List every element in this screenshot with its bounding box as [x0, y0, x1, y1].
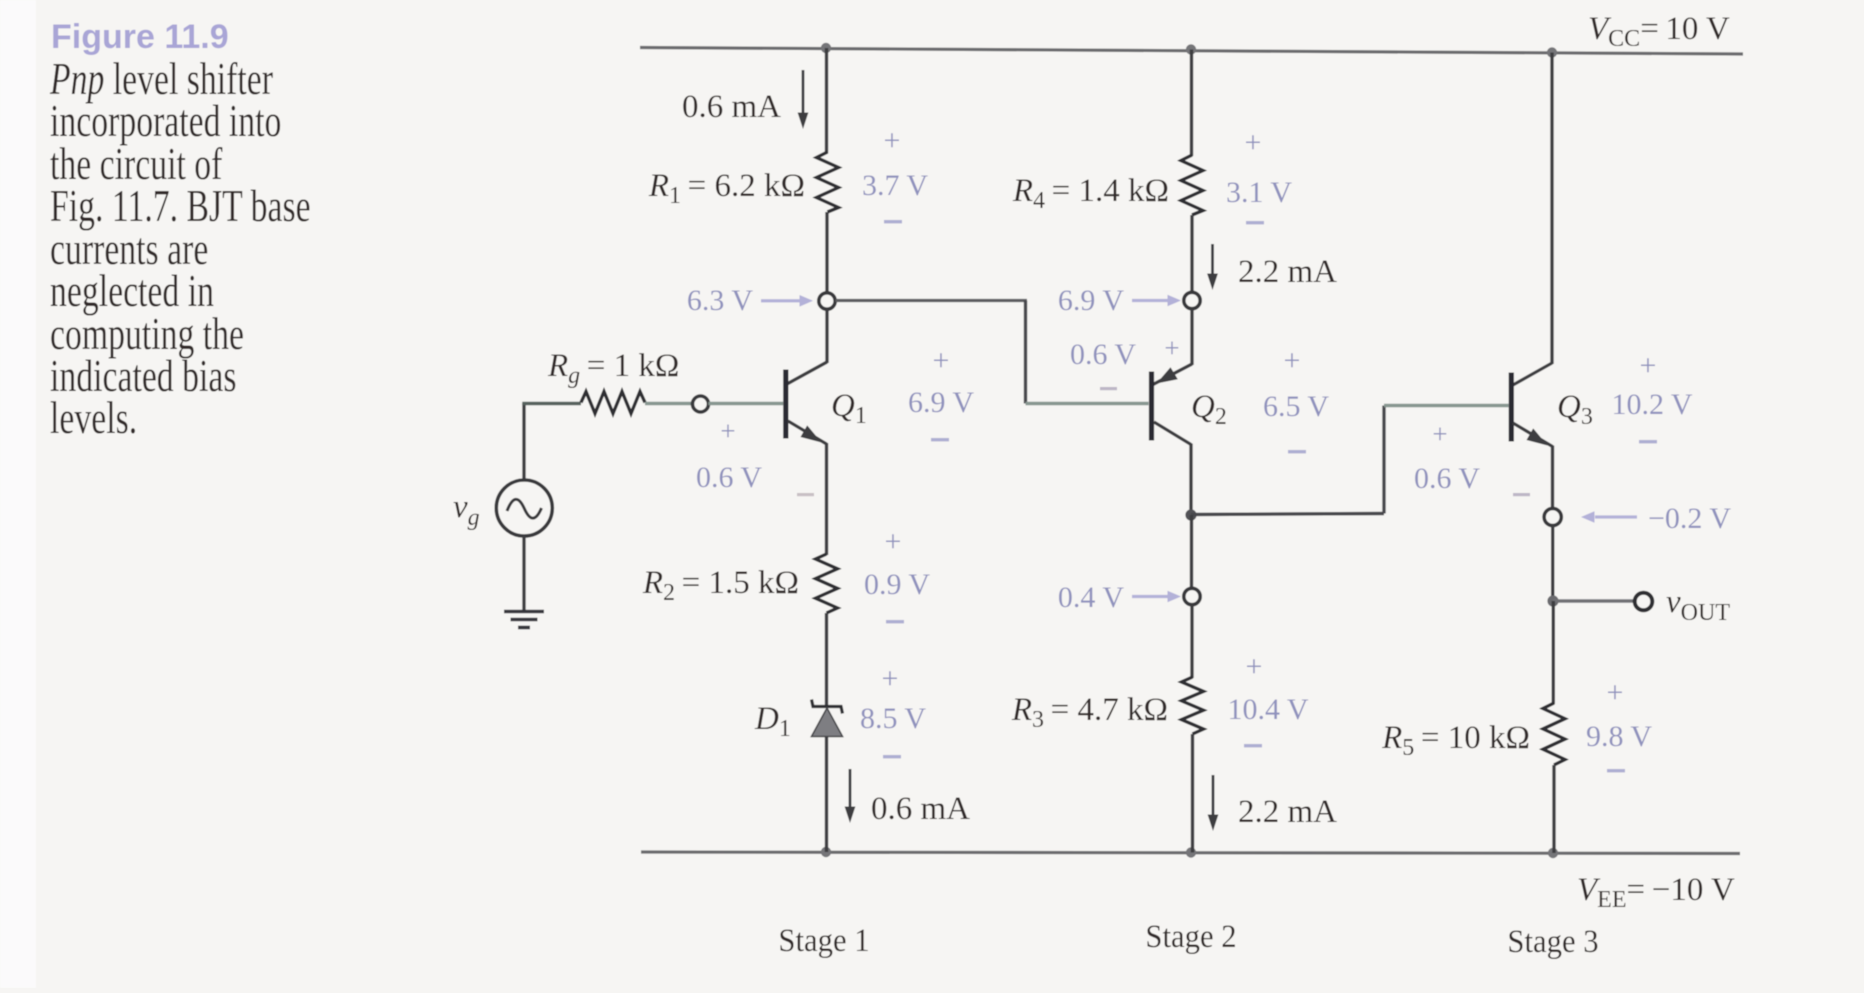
junction dot top rail stage 1 — [821, 43, 831, 53]
arrow from 6.3 V label to node — [761, 295, 813, 307]
junction dot bottom rail stage 1 — [821, 847, 831, 857]
transistor Q1 collector diagonal — [787, 362, 827, 384]
minus sign of 6.5 V (Q2 VEC) — [1288, 450, 1306, 453]
wire junction to stage3 elbow (horizontal) — [1191, 514, 1384, 515]
resistor R4 — [1181, 155, 1203, 215]
svg-text:+: + — [1245, 126, 1262, 159]
svg-text:0.6 mA: 0.6 mA — [682, 89, 781, 125]
resistor R5 — [1543, 703, 1565, 765]
transistor Q3 emitter diagonal — [1513, 423, 1553, 447]
transistor Q3 collector diagonal — [1513, 363, 1552, 385]
svg-text:Stage 2: Stage 2 — [1145, 918, 1236, 954]
transistor Q2 emitter diagonal — [1153, 364, 1192, 385]
resistor R2 — [816, 554, 838, 613]
svg-text:+: + — [885, 525, 902, 558]
svg-text:Stage 1: Stage 1 — [778, 922, 869, 958]
current arrow 0.6 mA down (bottom) — [845, 769, 856, 823]
source vg wire elbow to Rg — [522, 403, 525, 481]
current arrow 0.6 mA down (top) — [798, 70, 809, 129]
svg-text:6.9 V: 6.9 V — [1058, 284, 1124, 317]
minus sign of 10.4 V — [1244, 744, 1262, 747]
VCC rail (top) — [640, 48, 1743, 55]
wire R5 to VEE rail — [1552, 765, 1555, 853]
transistor Q2 emitter arrowhead (pnp, pointing into base) — [1157, 367, 1178, 383]
wire vg to ground — [522, 536, 525, 610]
minus sign of 10.2 V (Q3 VCE) — [1639, 440, 1657, 443]
wire R2 to zener D1 — [825, 613, 828, 707]
wire stage2 from VCC rail to R4 — [1190, 50, 1193, 157]
svg-text:−0.2 V: −0.2 V — [1648, 502, 1731, 535]
transistor Q3 base bar — [1509, 373, 1514, 442]
svg-text:Figure 11.9: Figure 11.9 — [51, 18, 229, 56]
wire node 0.4V to R3 — [1190, 605, 1193, 678]
zener diode D1 cathode bar — [812, 700, 843, 714]
svg-text:+: + — [1164, 333, 1179, 363]
junction dot bottom rail stage 3 — [1548, 848, 1558, 858]
minus sign of 3.7 V — [884, 220, 902, 223]
transistor Q3 emitter arrowhead — [1527, 428, 1548, 445]
transistor Q1 emitter arrowhead — [801, 425, 822, 442]
minus sign of 9.8 V — [1607, 769, 1625, 772]
minus sign of 3.1 V — [1246, 221, 1264, 224]
wire Q1 emitter to R2 — [825, 443, 828, 555]
svg-text:0.6 V: 0.6 V — [1070, 338, 1136, 371]
wire R4 to node 6.9V — [1190, 215, 1193, 292]
wire input node to Q1 base — [709, 402, 784, 405]
input node circle (Q1 base) — [693, 396, 709, 412]
junction dot top rail stage 3 — [1547, 47, 1557, 57]
svg-text:0.6 mA: 0.6 mA — [871, 791, 970, 827]
wire stage1 collector from VCC rail — [825, 48, 828, 153]
resistor Rg — [581, 392, 645, 414]
wire R1 to node 6.3V — [825, 212, 828, 293]
svg-text:+: + — [884, 124, 901, 157]
transistor Q1 base bar — [783, 370, 788, 439]
source vg circle — [496, 480, 552, 536]
junction dot top rail stage 2 — [1186, 44, 1196, 54]
arrow from 6.9 V label to node — [1132, 295, 1181, 307]
arrow from 0.4 V label to node — [1132, 591, 1181, 603]
svg-text:2.2 mA: 2.2 mA — [1238, 794, 1337, 830]
transistor Q2 collector diagonal — [1154, 422, 1191, 445]
svg-text:6.3 V: 6.3 V — [687, 284, 753, 317]
minus sign of 8.5 V — [883, 755, 901, 758]
svg-text:0.4 V: 0.4 V — [1058, 581, 1124, 614]
wire junction down to R5 — [1552, 601, 1555, 704]
svg-text:6.5 V: 6.5 V — [1263, 390, 1329, 423]
svg-text:3.7 V: 3.7 V — [862, 169, 928, 202]
wire elbow to Q3 base — [1384, 404, 1509, 407]
svg-text:0.9 V: 0.9 V — [864, 568, 930, 601]
svg-text:+: + — [1640, 349, 1657, 382]
wire Q2 base from elbow — [1026, 402, 1149, 405]
svg-text:levels.: levels. — [50, 393, 137, 443]
svg-text:0.6 V: 0.6 V — [696, 461, 762, 494]
svg-text:6.9 V: 6.9 V — [908, 386, 974, 419]
vOUT terminal circle — [1635, 593, 1653, 611]
svg-text:10.4 V: 10.4 V — [1227, 693, 1308, 726]
wire Q3 emitter to node -0.2V — [1551, 446, 1554, 509]
transistor Q2 base bar — [1149, 372, 1154, 441]
minus sign of 6.9 V (Q1 VCE) — [931, 438, 949, 441]
wire node to Q2 emitter — [1190, 309, 1193, 365]
current arrow 2.2 mA down (stage2 top) — [1207, 244, 1218, 290]
wire node to Q1 collector — [825, 310, 828, 364]
svg-text:9.8 V: 9.8 V — [1586, 720, 1652, 753]
junction dot Q2 collector — [1185, 509, 1196, 520]
svg-text:+: + — [1607, 676, 1624, 709]
zener diode D1 triangle — [812, 708, 843, 737]
svg-text:Rg = 1 kΩ: Rg = 1 kΩ — [547, 348, 679, 389]
svg-text:+: + — [720, 416, 735, 446]
minus sign of 0.6 V (Q1 VBE) — [797, 493, 814, 496]
svg-text:Stage 3: Stage 3 — [1507, 923, 1598, 959]
svg-text:+: + — [1284, 344, 1301, 377]
wire node to vOUT junction — [1551, 526, 1554, 602]
node circle 0.4 V — [1184, 588, 1200, 604]
svg-text:+: + — [933, 344, 950, 377]
page left margin white strip — [0, 0, 36, 988]
svg-text:3.1 V: 3.1 V — [1226, 176, 1292, 209]
node circle -0.2 V — [1544, 508, 1561, 525]
arrow from -0.2 V label to node (pointing left) — [1581, 511, 1637, 523]
source vg sine wave — [507, 499, 542, 518]
junction dot bottom rail stage 2 — [1186, 847, 1196, 857]
current arrow 2.2 mA down (stage2 bottom) — [1208, 775, 1219, 831]
wire Q2 collector down to junction — [1189, 444, 1192, 517]
svg-text:0.6 V: 0.6 V — [1414, 462, 1480, 495]
wire Rg to input node circle — [645, 402, 692, 405]
wire R3 to VEE rail — [1191, 734, 1194, 853]
minus sign of 0.9 V — [886, 620, 904, 623]
resistor R1 — [817, 152, 839, 212]
wire node 6.3V to stage2 elbow (horizontal) — [836, 299, 1028, 302]
resistor R3 — [1182, 677, 1204, 734]
wire stage3 collector from VCC rail — [1550, 53, 1553, 365]
ground symbol — [504, 612, 544, 628]
minus sign of 0.6 V (Q3 VBE) — [1513, 493, 1530, 496]
wire D1 to VEE rail — [825, 737, 828, 852]
node circle 6.9 V — [1184, 292, 1200, 308]
wire elbow down to Q2 base level — [1024, 301, 1027, 404]
wire stage3 elbow up — [1382, 406, 1385, 514]
transistor Q1 emitter diagonal — [788, 421, 827, 444]
svg-text:2.2 mA: 2.2 mA — [1238, 254, 1337, 290]
VEE rail (bottom) — [641, 852, 1740, 854]
junction dot vOUT tap — [1547, 595, 1558, 606]
svg-text:+: + — [1246, 650, 1263, 683]
wire Q2 junction down to node 0.4V — [1190, 515, 1193, 589]
svg-text:+: + — [882, 662, 899, 695]
minus sign of 0.6 V (Q2) — [1100, 387, 1117, 390]
node circle 6.3 V — [819, 293, 835, 309]
wire junction to vOUT terminal — [1553, 599, 1633, 603]
svg-text:+: + — [1432, 419, 1447, 449]
svg-text:10.2 V: 10.2 V — [1611, 388, 1692, 421]
svg-text:8.5 V: 8.5 V — [860, 702, 926, 735]
